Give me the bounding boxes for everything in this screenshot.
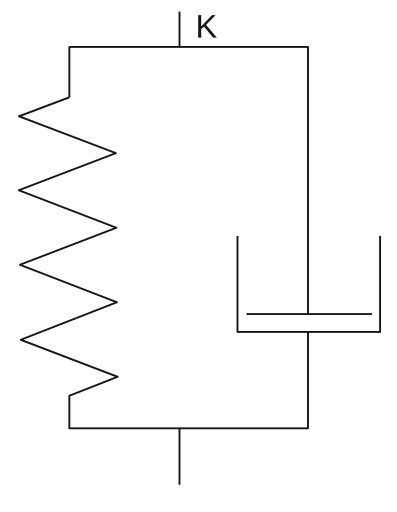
damper cylinder (cup) (238, 236, 381, 332)
spring K (zigzag) with bottom lead, bottom bar, damper lower lead (19, 97, 308, 428)
wire: left lead, top bar, right lead (damper rod upper) (69, 47, 308, 314)
damper piston plate (247, 313, 372, 315)
wire: top connection stub (179, 12, 181, 48)
label K (spring stiffness) (198, 15, 217, 37)
wire: bottom connection stub (179, 428, 181, 485)
